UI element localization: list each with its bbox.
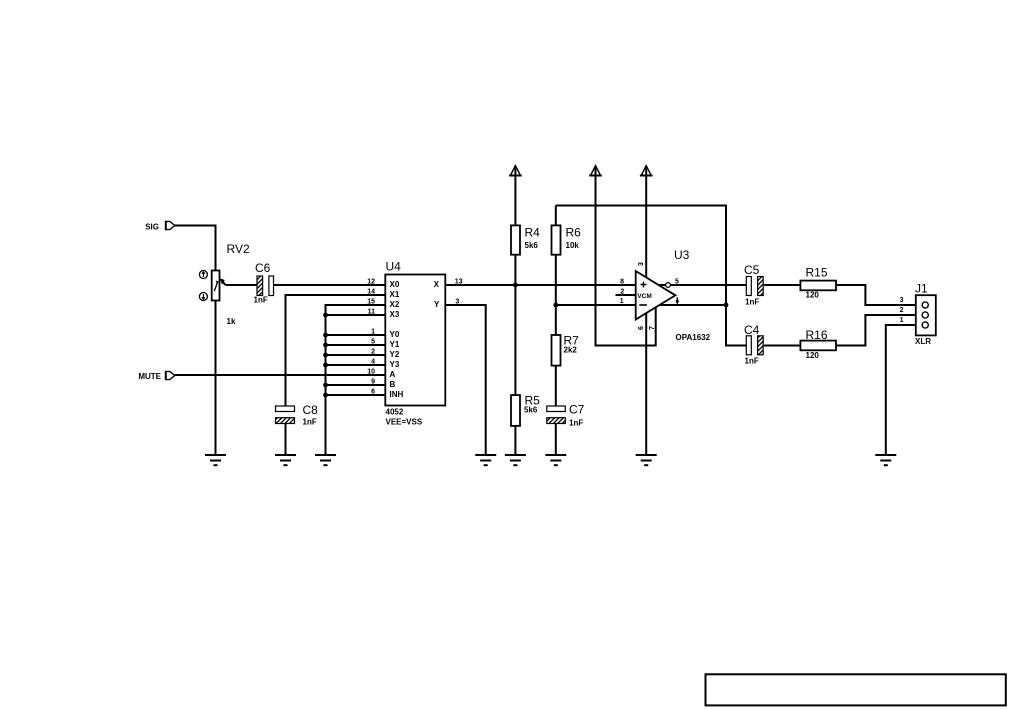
svg-text:C6: C6 [255, 261, 271, 275]
svg-text:A: A [390, 370, 396, 379]
svg-text:9: 9 [371, 379, 375, 386]
svg-text:C8: C8 [303, 403, 319, 417]
svg-text:1nF: 1nF [303, 418, 317, 427]
svg-text:X0: X0 [390, 280, 400, 289]
svg-text:U3: U3 [674, 248, 690, 262]
svg-text:2: 2 [371, 349, 375, 356]
svg-text:Y1: Y1 [390, 340, 400, 349]
svg-text:10: 10 [367, 369, 375, 376]
svg-text:5: 5 [371, 339, 375, 346]
svg-text:10k: 10k [566, 241, 580, 250]
svg-text:120: 120 [806, 351, 820, 360]
svg-text:R6: R6 [566, 226, 582, 240]
svg-text:120: 120 [806, 291, 820, 300]
svg-text:3: 3 [638, 262, 645, 266]
svg-text:MUTE: MUTE [138, 372, 161, 381]
svg-text:RV2: RV2 [227, 242, 250, 256]
svg-text:INH: INH [390, 390, 404, 399]
svg-text:OPA1632: OPA1632 [676, 333, 711, 342]
svg-text:C4: C4 [744, 323, 760, 337]
svg-text:1: 1 [620, 298, 624, 305]
svg-text:SIG: SIG [145, 223, 159, 232]
svg-text:C5: C5 [744, 263, 760, 277]
svg-text:R15: R15 [806, 266, 828, 280]
svg-text:2k2: 2k2 [564, 346, 578, 355]
svg-text:4052: 4052 [386, 408, 404, 417]
svg-text:XLR: XLR [915, 337, 931, 346]
svg-text:8: 8 [620, 279, 624, 286]
svg-text:6: 6 [638, 326, 645, 330]
svg-text:VEE=VSS: VEE=VSS [386, 418, 423, 427]
svg-text:X3: X3 [390, 310, 400, 319]
svg-text:11: 11 [368, 309, 376, 316]
svg-text:Y: Y [434, 300, 440, 309]
svg-text:Y0: Y0 [390, 330, 400, 339]
svg-text:13: 13 [455, 279, 463, 286]
svg-text:B: B [390, 380, 396, 389]
svg-text:4: 4 [371, 359, 375, 366]
svg-text:7: 7 [649, 326, 656, 330]
svg-text:X: X [434, 280, 440, 289]
svg-text:2: 2 [620, 289, 624, 296]
svg-text:3: 3 [455, 299, 459, 306]
svg-text:14: 14 [367, 289, 375, 296]
svg-text:X2: X2 [390, 300, 400, 309]
svg-text:VCM: VCM [637, 293, 651, 300]
svg-text:2: 2 [900, 307, 904, 314]
svg-text:12: 12 [367, 279, 375, 286]
svg-text:1nF: 1nF [254, 296, 268, 305]
svg-text:5k6: 5k6 [525, 241, 539, 250]
svg-text:6: 6 [371, 389, 375, 396]
svg-text:1nF: 1nF [569, 419, 583, 428]
svg-text:15: 15 [367, 299, 375, 306]
svg-text:Y2: Y2 [390, 350, 400, 359]
svg-text:5: 5 [675, 279, 679, 286]
svg-text:R4: R4 [525, 226, 541, 240]
svg-text:R16: R16 [806, 328, 828, 342]
svg-text:1: 1 [371, 329, 375, 336]
svg-text:C7: C7 [569, 403, 585, 417]
svg-text:1: 1 [900, 317, 904, 324]
svg-text:X1: X1 [390, 290, 400, 299]
svg-text:1k: 1k [227, 317, 236, 326]
svg-text:J1: J1 [915, 282, 928, 296]
svg-text:U4: U4 [386, 260, 402, 274]
svg-text:Y3: Y3 [390, 360, 400, 369]
svg-text:5k6: 5k6 [524, 406, 538, 415]
svg-text:1nF: 1nF [745, 357, 759, 366]
svg-text:3: 3 [900, 297, 904, 304]
svg-text:1nF: 1nF [745, 298, 759, 307]
